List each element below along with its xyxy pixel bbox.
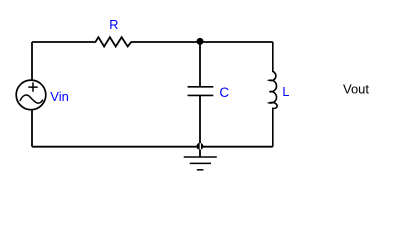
svg-text:R: R xyxy=(109,18,118,32)
svg-text:L: L xyxy=(282,85,289,99)
svg-text:Vout: Vout xyxy=(343,81,369,96)
svg-text:Vin: Vin xyxy=(50,89,69,104)
svg-text:C: C xyxy=(219,85,229,100)
